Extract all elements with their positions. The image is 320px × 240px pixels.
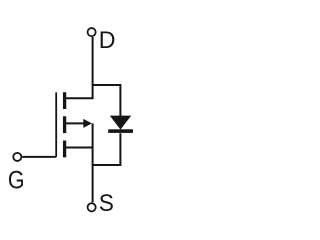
label S bbox=[99, 189, 114, 216]
mosfet Q1 gate electrode (vertical line) bbox=[55, 92, 57, 156]
svg-text:D: D bbox=[99, 27, 116, 55]
wire: D terminal down to drain corner and drain stub bbox=[66, 37, 93, 98]
mosfet Q1 channel segment (source side) bbox=[63, 141, 66, 158]
mosfet Q1 channel segment (body, middle) bbox=[63, 116, 66, 133]
wire: diode cathode down and bottom horizontal to source node bbox=[93, 133, 121, 165]
svg-text:G: G bbox=[8, 166, 25, 194]
wire: source stub from channel to vertical bbox=[66, 147, 93, 149]
label D bbox=[99, 27, 116, 55]
svg-text:S: S bbox=[99, 189, 114, 216]
terminal D (open circle) bbox=[88, 28, 96, 36]
wire: body/source vertical down to S terminal bbox=[92, 123, 94, 202]
mosfet Q1 body arrow head (pointing right, N-channel) bbox=[83, 119, 92, 128]
mosfet Q1 channel segment (drain side) bbox=[63, 92, 66, 109]
terminal S (open circle) bbox=[88, 203, 96, 211]
diode D1 anode triangle (body diode, pointing down) bbox=[110, 116, 131, 130]
wire: drain node to diode branch (top horizontal + down to diode anode) bbox=[93, 85, 121, 116]
mosfet Q1 body stub line bbox=[66, 122, 85, 124]
terminal G (open circle) bbox=[13, 153, 21, 161]
wire: gate lead from G terminal to gate electrode bbox=[22, 156, 56, 158]
label G bbox=[8, 166, 25, 194]
diode D1 cathode bar bbox=[108, 129, 133, 133]
